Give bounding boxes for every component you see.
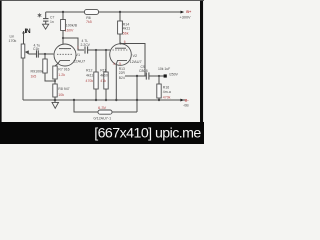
- watermark bar: [0, 122, 204, 144]
- top border line: [0, 0, 204, 2]
- svg-text:C1b: C1b: [33, 47, 39, 51]
- svg-text:10k: 10k: [58, 93, 64, 97]
- chassis star symbol: [38, 13, 42, 17]
- resistor R8 cathode lower: [53, 84, 57, 97]
- svg-text:IN: IN: [25, 28, 31, 35]
- resistor R9 grid leak: [43, 59, 47, 73]
- wire R14 bottom to V2 plate: [119, 34, 121, 44]
- wire pot ground drop: [22, 58, 24, 100]
- svg-text:R11: R11: [100, 69, 106, 73]
- svg-text:170k: 170k: [9, 39, 17, 43]
- node V2 cathode ground: [115, 99, 117, 101]
- node rail R14: [119, 11, 121, 13]
- svg-text:C8C8: C8C8: [139, 69, 148, 73]
- svg-text:R12: R12: [86, 69, 92, 73]
- resistor R11: [104, 72, 108, 89]
- wire R5 top lead: [62, 12, 64, 20]
- resistor R5 plate load: [61, 20, 66, 31]
- node output junction: [158, 75, 160, 77]
- node nfb junction: [136, 75, 138, 77]
- resistor R6 rail: [85, 10, 99, 15]
- svg-text:4k60: 4k60: [100, 74, 108, 78]
- node ground junction: [54, 99, 57, 102]
- svg-text:[667x410] upic.me: [667x410] upic.me: [94, 125, 201, 141]
- wire V2 cathode drop: [115, 65, 117, 100]
- svg-text:0/12AU7-1: 0/12AU7-1: [94, 117, 112, 121]
- svg-text:B24: B24: [119, 76, 125, 80]
- svg-text:1n: 1n: [50, 20, 54, 24]
- resistor R7 cathode upper: [53, 66, 57, 79]
- wire cap to grid V1: [39, 53, 54, 55]
- svg-text:V1: V1: [76, 53, 81, 57]
- node V1 plate branch: [62, 37, 64, 39]
- node R16 ground: [158, 99, 160, 101]
- svg-text:470k: 470k: [86, 79, 94, 83]
- svg-text:R9100k: R9100k: [31, 70, 44, 74]
- svg-text:R7 916: R7 916: [58, 68, 69, 72]
- capacitor C1: [37, 50, 39, 57]
- svg-text:V2: V2: [133, 54, 138, 58]
- wire R12 chain: [95, 50, 97, 72]
- capacitor C9 output: [146, 72, 149, 79]
- wire V1 plate takeoff: [63, 38, 84, 50]
- wire R11 chain: [105, 50, 107, 72]
- node C8 out: [95, 49, 97, 51]
- potentiometer VR1: [21, 44, 29, 58]
- svg-text:22R: 22R: [119, 71, 126, 75]
- svg-text:6: 6: [124, 40, 126, 44]
- ground arrow top-left: [43, 24, 49, 29]
- wire B+ top rail: [46, 11, 85, 13]
- left black border: [0, 0, 2, 144]
- triode V2: [110, 44, 132, 66]
- wire R5 bottom to V1 plate: [62, 31, 64, 45]
- node input junction: [22, 32, 24, 34]
- resistor R12: [94, 72, 98, 89]
- svg-text:56k: 56k: [123, 32, 129, 36]
- wire input drop: [23, 31, 25, 44]
- triode V1: [54, 44, 76, 66]
- node heater left: [73, 99, 75, 101]
- resistor R16: [157, 84, 161, 98]
- wire wiper to cap: [26, 52, 37, 54]
- svg-text:470k: 470k: [163, 96, 171, 100]
- wire ground rail: [23, 99, 185, 101]
- svg-text:5: 5: [119, 62, 121, 66]
- wire grid resistor top lead: [44, 54, 46, 59]
- scan background: [0, 0, 204, 144]
- svg-text:-0B: -0B: [183, 104, 189, 108]
- node grid junction A: [44, 53, 46, 55]
- output terminal square: [164, 74, 167, 77]
- capacitor C8 coupling: [85, 46, 88, 53]
- svg-text:1.2k: 1.2k: [58, 73, 65, 77]
- node rail R5: [62, 11, 64, 13]
- node R12 ground: [95, 99, 97, 101]
- svg-text:10k 1uF: 10k 1uF: [158, 67, 170, 71]
- capacitor C10 decoupling: [43, 19, 49, 22]
- node cathode junction: [54, 80, 56, 82]
- wire decoupling cap top lead: [45, 12, 47, 18]
- resistor R14 plate load 2: [118, 21, 123, 34]
- svg-text:R16: R16: [163, 86, 169, 90]
- wire nfb drop: [136, 76, 138, 112]
- svg-text:/250V: /250V: [169, 73, 179, 77]
- svg-text:47k: 47k: [100, 79, 106, 83]
- svg-text:4k11: 4k11: [86, 74, 93, 78]
- node R11 ground: [105, 99, 107, 101]
- node nfb rail cross: [136, 99, 138, 101]
- svg-text:12AU7: 12AU7: [73, 59, 86, 64]
- svg-text:7k5: 7k5: [86, 20, 92, 24]
- svg-text:1: 1: [77, 45, 79, 49]
- wire cathode chain to ground: [54, 97, 56, 100]
- svg-text:B+: B+: [186, 9, 192, 14]
- svg-text:4m-a: 4m-a: [163, 90, 171, 94]
- wire V1 cathode lead: [55, 64, 58, 67]
- right black border: [200, 0, 203, 144]
- wire R16 leads: [158, 76, 160, 84]
- wire heater loop: [74, 100, 98, 112]
- resistor heater link: [98, 110, 112, 114]
- svg-text:+300V: +300V: [180, 16, 192, 20]
- svg-text:R8 947: R8 947: [58, 87, 69, 91]
- wire V2 plate takeoff: [121, 44, 146, 77]
- output ground terminal: [180, 99, 184, 102]
- svg-text:1k5: 1k5: [31, 75, 37, 79]
- svg-text:6.3V: 6.3V: [98, 105, 107, 110]
- svg-text:100k/B: 100k/B: [66, 23, 78, 27]
- wire coupling cap C8 to V2 grid: [88, 49, 110, 51]
- ground symbol: [52, 102, 59, 108]
- svg-text:160V: 160V: [65, 29, 74, 33]
- svg-text:4: 4: [113, 62, 115, 66]
- svg-text:2.2CV: 2.2CV: [81, 43, 91, 47]
- svg-text:12AU7: 12AU7: [130, 59, 143, 64]
- svg-text:4k11: 4k11: [123, 27, 131, 31]
- svg-text:Lin: Lin: [10, 35, 15, 39]
- wire output line: [125, 75, 146, 77]
- B+ terminal arrow: [181, 11, 185, 14]
- node V2 plate: [120, 43, 122, 45]
- wire decoupling cap bottom lead: [45, 21, 47, 24]
- node R11 tap: [105, 49, 107, 51]
- wire grid resistor bottom lead: [45, 73, 55, 81]
- wire R14 top lead: [119, 12, 121, 21]
